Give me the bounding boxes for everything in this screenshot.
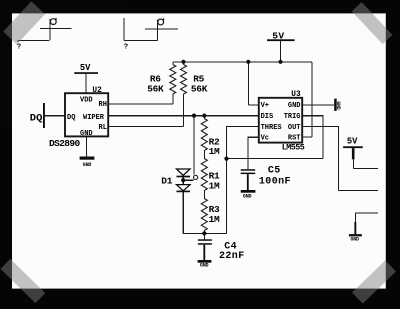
svg-text:GND: GND [350,236,359,242]
svg-text:OUT: OUT [288,124,301,132]
svg-text:5V: 5V [80,63,91,73]
svg-text:5V: 5V [347,137,358,147]
svg-text:RH: RH [99,101,107,109]
svg-text:22nF: 22nF [219,251,245,262]
svg-text:THRES: THRES [261,124,282,132]
svg-text:D1: D1 [161,175,172,186]
svg-text:C5: C5 [268,166,281,177]
svg-text:?: ? [17,43,21,51]
svg-text:GND: GND [80,130,93,138]
svg-text:GND: GND [335,101,341,110]
svg-text:GND: GND [243,194,252,200]
svg-text:GND: GND [83,162,92,168]
svg-text:GND: GND [200,263,209,269]
svg-text:VDD: VDD [80,97,93,105]
svg-text:1M: 1M [209,146,220,157]
svg-text:V+: V+ [261,102,269,110]
svg-text:56K: 56K [147,84,164,95]
svg-text:U2: U2 [92,87,102,95]
svg-text:DQ: DQ [67,114,75,122]
svg-text:5V: 5V [272,31,284,42]
svg-text:56K: 56K [191,84,208,95]
svg-text:1M: 1M [209,180,220,191]
svg-text:?: ? [124,43,128,51]
svg-text:1M: 1M [209,214,220,225]
svg-text:TRIG: TRIG [284,113,301,121]
svg-text:DQ: DQ [30,112,43,124]
svg-text:WIPER: WIPER [83,114,105,122]
svg-text:100nF: 100nF [259,176,291,187]
svg-text:U3: U3 [291,91,301,99]
svg-text:GND: GND [288,102,301,110]
svg-text:LM555: LM555 [282,143,305,152]
svg-text:Vc: Vc [261,135,269,143]
svg-text:DS2890: DS2890 [49,138,81,149]
svg-text:RST: RST [288,135,301,143]
svg-text:RL: RL [99,124,107,132]
svg-text:DIS: DIS [261,113,274,121]
